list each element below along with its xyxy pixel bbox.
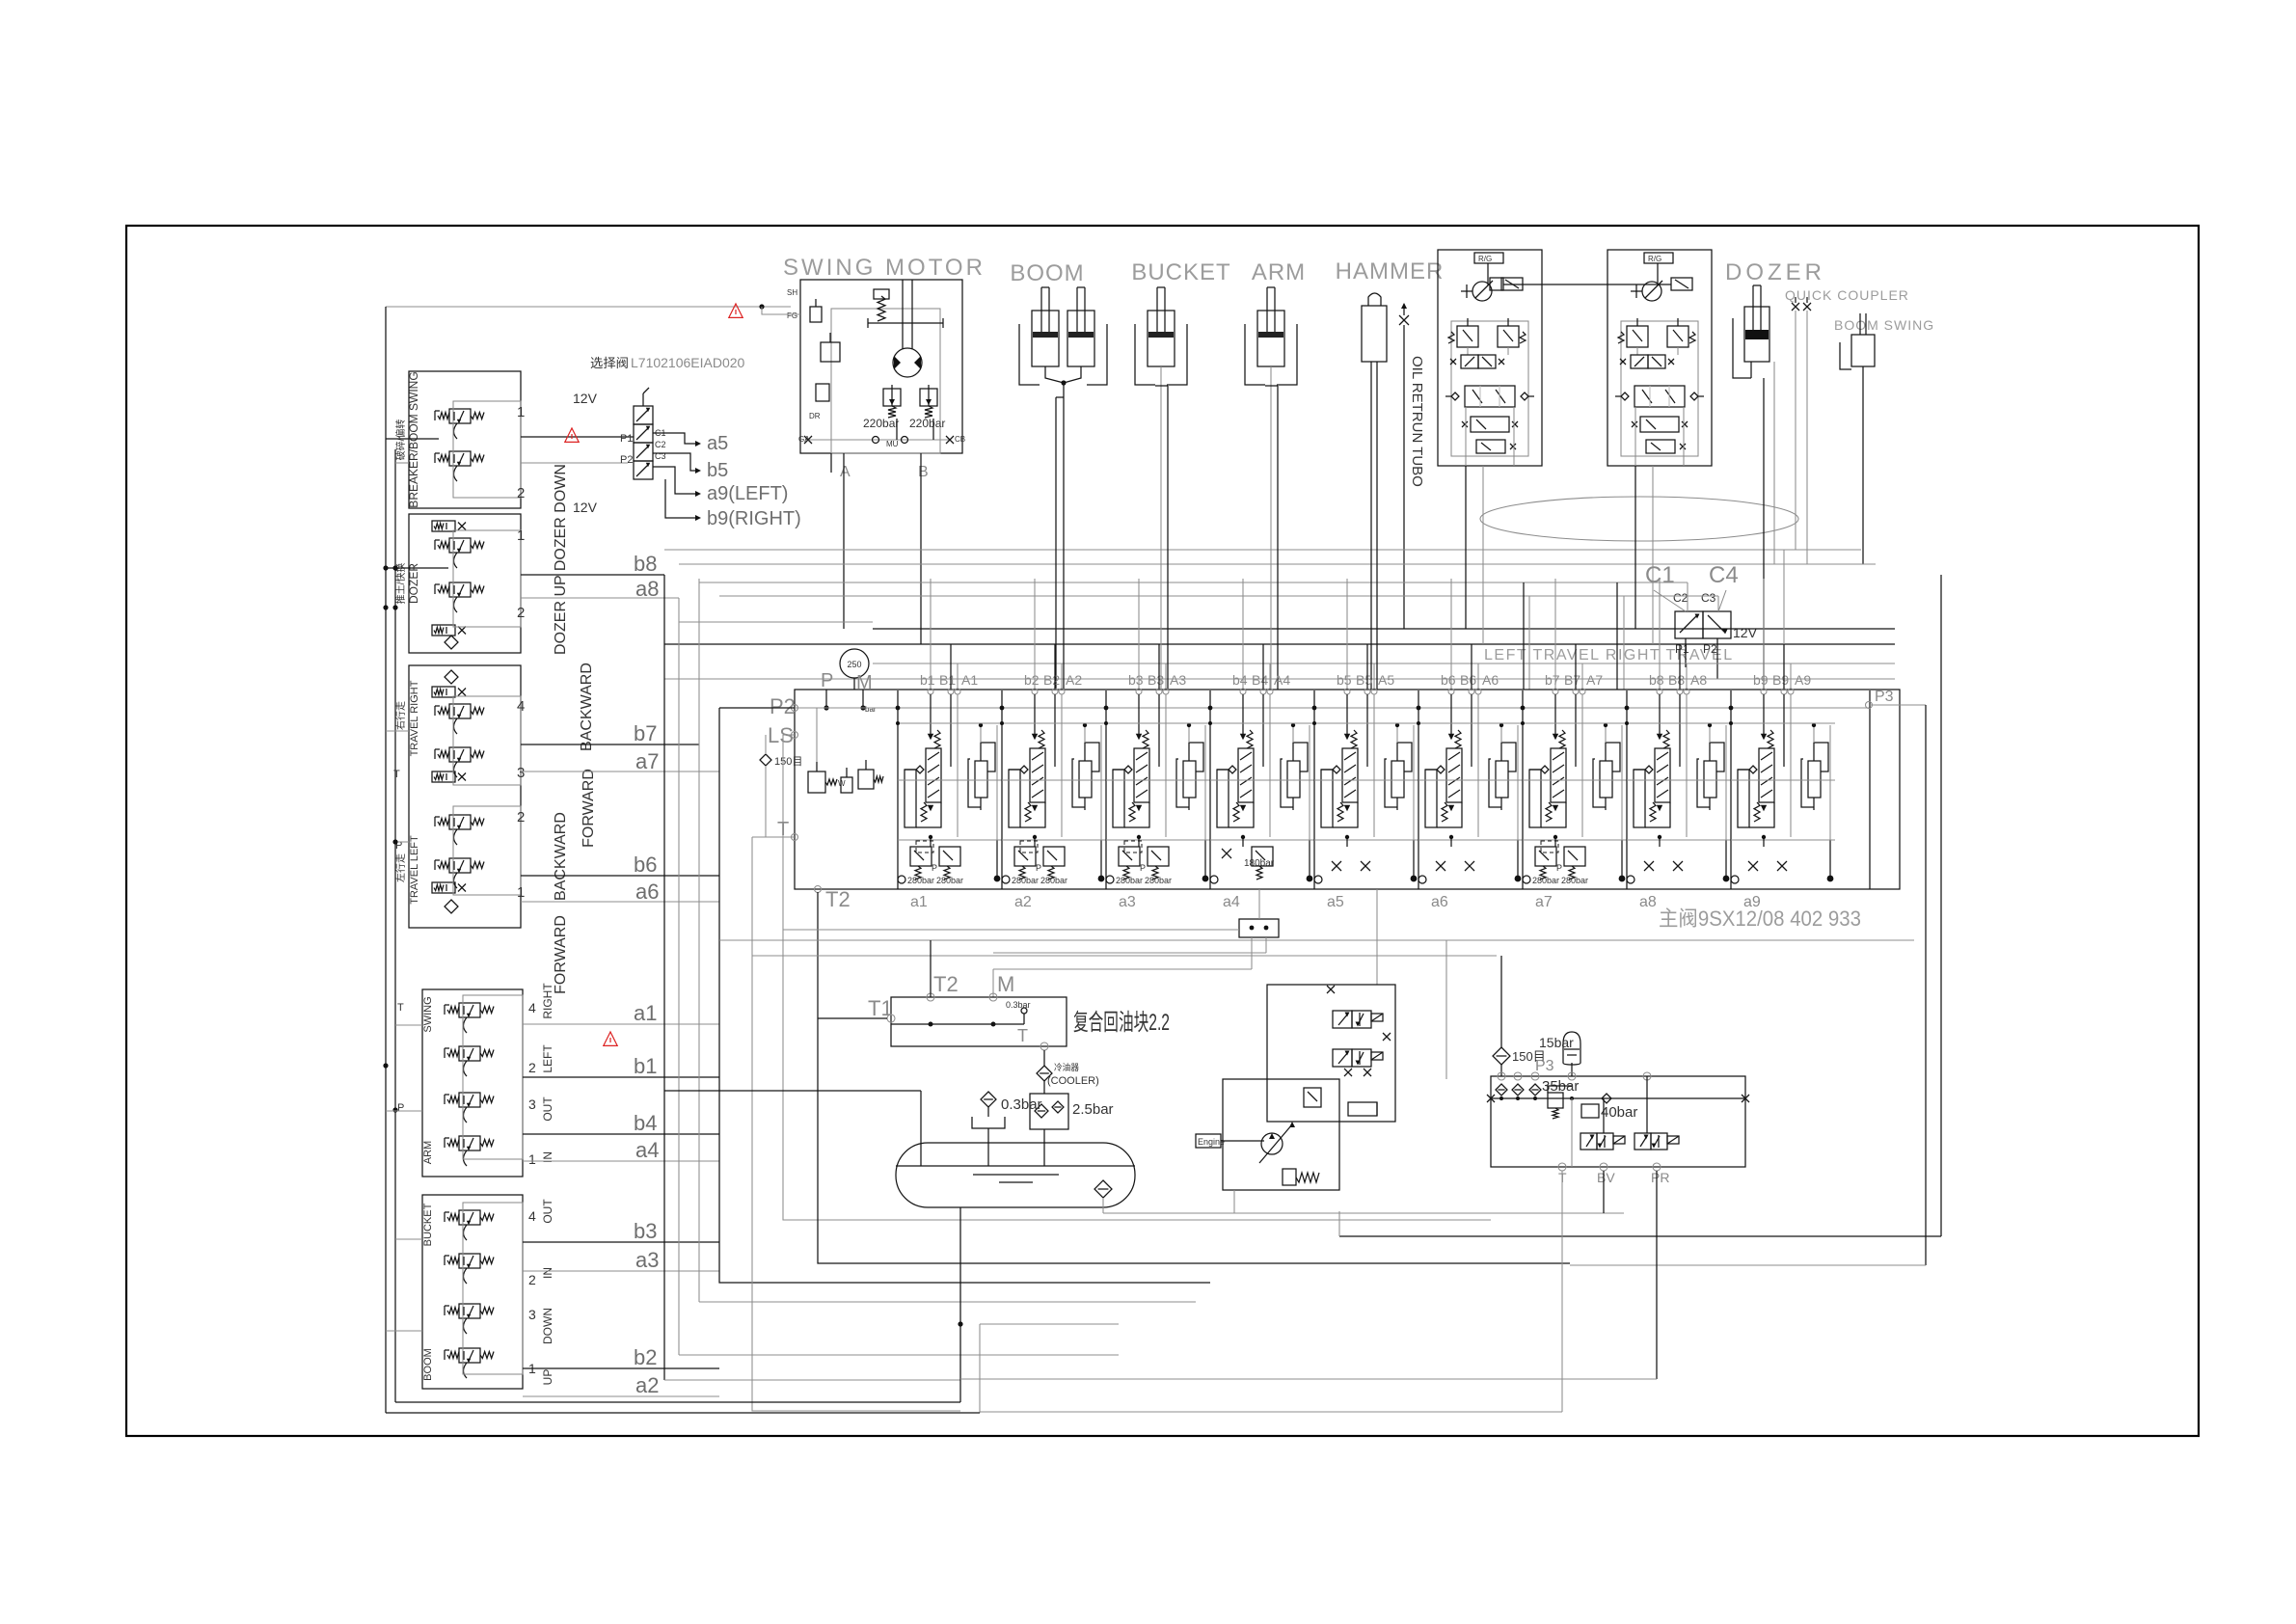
svg-text:P1: P1 (620, 433, 633, 445)
svg-text:150目: 150目 (774, 756, 802, 768)
svg-text:b5: b5 (1337, 672, 1352, 688)
svg-text:TRAVEL LEFT: TRAVEL LEFT (409, 835, 420, 905)
svg-text:b7: b7 (1545, 672, 1560, 688)
svg-text:a7: a7 (1535, 894, 1553, 910)
svg-text:左行走: 左行走 (394, 853, 407, 882)
svg-text:b6: b6 (634, 853, 657, 877)
svg-text:bar: bar (865, 705, 877, 714)
svg-text:SWING: SWING (422, 996, 434, 1032)
svg-text:a7: a7 (635, 749, 659, 773)
svg-text:a5: a5 (1327, 894, 1344, 910)
svg-text:b9: b9 (1753, 672, 1769, 688)
svg-text:B1: B1 (939, 672, 956, 688)
svg-text:P2: P2 (620, 454, 633, 466)
svg-text:B2: B2 (1043, 672, 1060, 688)
svg-text:A3: A3 (1170, 672, 1186, 688)
svg-text:A1: A1 (961, 672, 978, 688)
svg-text:b6: b6 (1441, 672, 1456, 688)
svg-text:OIL RETRUN TUBO: OIL RETRUN TUBO (1409, 356, 1425, 487)
svg-text:220bar: 220bar (863, 417, 899, 430)
svg-text:2: 2 (528, 1060, 536, 1075)
svg-text:2.5bar: 2.5bar (1072, 1101, 1114, 1118)
svg-text:b1: b1 (634, 1054, 657, 1078)
svg-text:P3: P3 (1875, 689, 1894, 705)
svg-text:4: 4 (528, 1000, 536, 1015)
svg-text:ARM: ARM (422, 1141, 434, 1164)
svg-text:B4: B4 (1252, 672, 1268, 688)
svg-text:BREAKER/BOOM SWING: BREAKER/BOOM SWING (407, 371, 420, 507)
svg-text:QUICK COUPLER: QUICK COUPLER (1785, 287, 1909, 303)
svg-text:BUCKET: BUCKET (1131, 259, 1230, 285)
svg-text:280bar: 280bar (1145, 876, 1172, 885)
svg-text:A2: A2 (1066, 672, 1082, 688)
svg-text:A8: A8 (1690, 672, 1707, 688)
svg-text:OUT: OUT (541, 1199, 554, 1224)
svg-text:P: P (932, 863, 937, 873)
svg-text:b8: b8 (1649, 672, 1664, 688)
svg-text:UP: UP (541, 1369, 554, 1386)
svg-text:SH: SH (787, 288, 797, 297)
svg-text:T1: T1 (868, 996, 893, 1020)
svg-text:右行走: 右行走 (394, 701, 407, 730)
svg-text:0.3bar: 0.3bar (1006, 1000, 1031, 1010)
svg-text:12V: 12V (573, 500, 598, 515)
svg-text:SWING MOTOR: SWING MOTOR (783, 255, 986, 281)
svg-text:T2: T2 (933, 972, 959, 996)
svg-text:280bar: 280bar (936, 876, 963, 885)
svg-text:B6: B6 (1460, 672, 1476, 688)
svg-text:C4: C4 (1709, 562, 1739, 588)
svg-text:280bar: 280bar (907, 876, 934, 885)
svg-text:B3: B3 (1148, 672, 1164, 688)
svg-text:BACKWARD: BACKWARD (553, 812, 569, 901)
svg-text:b3: b3 (1128, 672, 1144, 688)
svg-text:B7: B7 (1564, 672, 1580, 688)
svg-text:选择阀: 选择阀 (590, 356, 629, 370)
svg-text:b2: b2 (634, 1345, 657, 1369)
svg-text:180bar: 180bar (1244, 858, 1275, 869)
svg-text:b5: b5 (707, 460, 728, 481)
svg-text:2: 2 (528, 1272, 536, 1287)
svg-text:W: W (838, 779, 846, 788)
svg-text:P: P (1556, 863, 1562, 873)
svg-text:B: B (918, 464, 929, 480)
svg-text:破碎/偏转: 破碎/偏转 (394, 420, 407, 461)
svg-text:A5: A5 (1378, 672, 1394, 688)
svg-text:PR: PR (1651, 1170, 1669, 1185)
svg-text:b9(RIGHT): b9(RIGHT) (707, 508, 801, 529)
svg-text:R/G: R/G (1478, 255, 1492, 263)
svg-text:3: 3 (517, 765, 525, 781)
svg-text:15bar: 15bar (1539, 1035, 1574, 1050)
svg-text:P: P (397, 1102, 404, 1114)
svg-text:B9: B9 (1772, 672, 1789, 688)
svg-text:b4: b4 (634, 1111, 657, 1135)
svg-text:P: P (1036, 863, 1041, 873)
svg-text:0.3bar: 0.3bar (1001, 1096, 1042, 1113)
svg-text:L7102106EIAD020: L7102106EIAD020 (631, 355, 745, 370)
svg-text:BV: BV (1597, 1170, 1615, 1185)
svg-text:a1: a1 (910, 894, 928, 910)
svg-text:b3: b3 (634, 1219, 657, 1243)
svg-text:DOZER: DOZER (1725, 259, 1825, 285)
svg-text:A6: A6 (1482, 672, 1499, 688)
svg-text:OUT: OUT (541, 1096, 554, 1122)
svg-text:FORWARD: FORWARD (581, 769, 597, 848)
svg-text:C3: C3 (1701, 591, 1716, 605)
svg-text:ARM: ARM (1252, 259, 1306, 285)
svg-text:R/G: R/G (1648, 255, 1661, 263)
svg-text:BOOM: BOOM (422, 1348, 434, 1381)
svg-text:C2: C2 (655, 440, 666, 449)
svg-text:a3: a3 (1119, 894, 1136, 910)
svg-text:2: 2 (517, 605, 525, 621)
svg-text:BACKWARD: BACKWARD (579, 663, 595, 751)
svg-text:a3: a3 (635, 1248, 659, 1272)
svg-text:T2: T2 (825, 887, 851, 911)
svg-text:FG: FG (787, 311, 797, 320)
svg-text:1: 1 (517, 404, 525, 420)
svg-text:HAMMER: HAMMER (1336, 258, 1445, 284)
svg-text:B8: B8 (1668, 672, 1685, 688)
svg-text:2: 2 (517, 809, 525, 826)
svg-text:M: M (856, 672, 873, 693)
svg-text:40bar: 40bar (1601, 1104, 1637, 1121)
svg-text:DOWN: DOWN (541, 1308, 554, 1344)
svg-text:IN: IN (541, 1267, 554, 1279)
svg-text:280bar: 280bar (1116, 876, 1143, 885)
svg-text:DR: DR (809, 412, 821, 420)
svg-text:b2: b2 (1024, 672, 1040, 688)
svg-text:BOOM SWING: BOOM SWING (1834, 317, 1934, 333)
svg-text:280bar: 280bar (1040, 876, 1067, 885)
svg-text:1: 1 (517, 528, 525, 544)
svg-text:a2: a2 (635, 1373, 659, 1397)
svg-text:280bar: 280bar (1012, 876, 1039, 885)
svg-text:3: 3 (528, 1096, 536, 1112)
svg-text:FORWARD: FORWARD (553, 915, 569, 994)
svg-text:LEFT: LEFT (541, 1044, 554, 1073)
svg-text:2: 2 (517, 485, 525, 501)
svg-text:4: 4 (528, 1208, 536, 1224)
svg-text:P: P (821, 670, 833, 691)
svg-text:BUCKET: BUCKET (422, 1203, 434, 1246)
svg-text:A9: A9 (1795, 672, 1811, 688)
svg-text:MU: MU (886, 440, 899, 448)
svg-text:Engine: Engine (1198, 1137, 1225, 1147)
svg-text:b4: b4 (1232, 672, 1248, 688)
svg-text:T: T (397, 1002, 404, 1014)
svg-text:P: P (1140, 863, 1146, 873)
svg-text:TRAVEL RIGHT: TRAVEL RIGHT (409, 680, 420, 756)
svg-text:冷油器: 冷油器 (1054, 1062, 1079, 1072)
svg-text:a6: a6 (1431, 894, 1448, 910)
svg-text:250: 250 (847, 660, 861, 669)
svg-text:A4: A4 (1274, 672, 1290, 688)
svg-text:B5: B5 (1356, 672, 1372, 688)
svg-text:4: 4 (517, 698, 525, 715)
svg-text:复合回油块2.2: 复合回油块2.2 (1073, 1010, 1170, 1036)
svg-text:a9: a9 (1743, 894, 1761, 910)
svg-text:M: M (997, 972, 1014, 996)
svg-text:280bar: 280bar (1532, 876, 1559, 885)
svg-text:12V: 12V (1733, 625, 1758, 640)
svg-text:LEFT TRAVEL RIGHT TRAVEL: LEFT TRAVEL RIGHT TRAVEL (1484, 647, 1734, 663)
svg-text:DOZER UP DOZER DOWN: DOZER UP DOZER DOWN (553, 464, 569, 655)
svg-text:GA: GA (798, 435, 810, 444)
svg-text:C2: C2 (1673, 591, 1688, 605)
svg-text:a6: a6 (635, 880, 659, 904)
svg-text:1: 1 (517, 884, 525, 901)
svg-text:a4: a4 (635, 1138, 659, 1162)
svg-text:(COOLER): (COOLER) (1047, 1075, 1099, 1087)
svg-text:a5: a5 (707, 433, 728, 454)
svg-text:BOOM: BOOM (1010, 260, 1084, 286)
svg-text:a8: a8 (1639, 894, 1657, 910)
svg-text:220bar: 220bar (909, 417, 945, 430)
svg-text:a9(LEFT): a9(LEFT) (707, 483, 788, 504)
svg-text:a1: a1 (634, 1001, 657, 1025)
svg-text:a8: a8 (635, 577, 659, 601)
svg-text:P3: P3 (1535, 1058, 1554, 1074)
svg-text:280bar: 280bar (1561, 876, 1588, 885)
svg-text:b1: b1 (920, 672, 935, 688)
svg-text:A: A (840, 464, 851, 480)
svg-text:T: T (1017, 1026, 1028, 1045)
svg-text:T: T (393, 769, 400, 780)
svg-text:1: 1 (528, 1151, 536, 1167)
svg-text:b7: b7 (634, 721, 657, 745)
svg-text:DOZER: DOZER (407, 563, 420, 604)
svg-text:a2: a2 (1014, 894, 1032, 910)
svg-text:3: 3 (528, 1307, 536, 1322)
svg-text:12V: 12V (573, 391, 598, 406)
svg-text:A7: A7 (1586, 672, 1603, 688)
svg-text:a4: a4 (1223, 894, 1240, 910)
svg-text:CB: CB (955, 435, 965, 444)
svg-text:b8: b8 (634, 552, 657, 576)
